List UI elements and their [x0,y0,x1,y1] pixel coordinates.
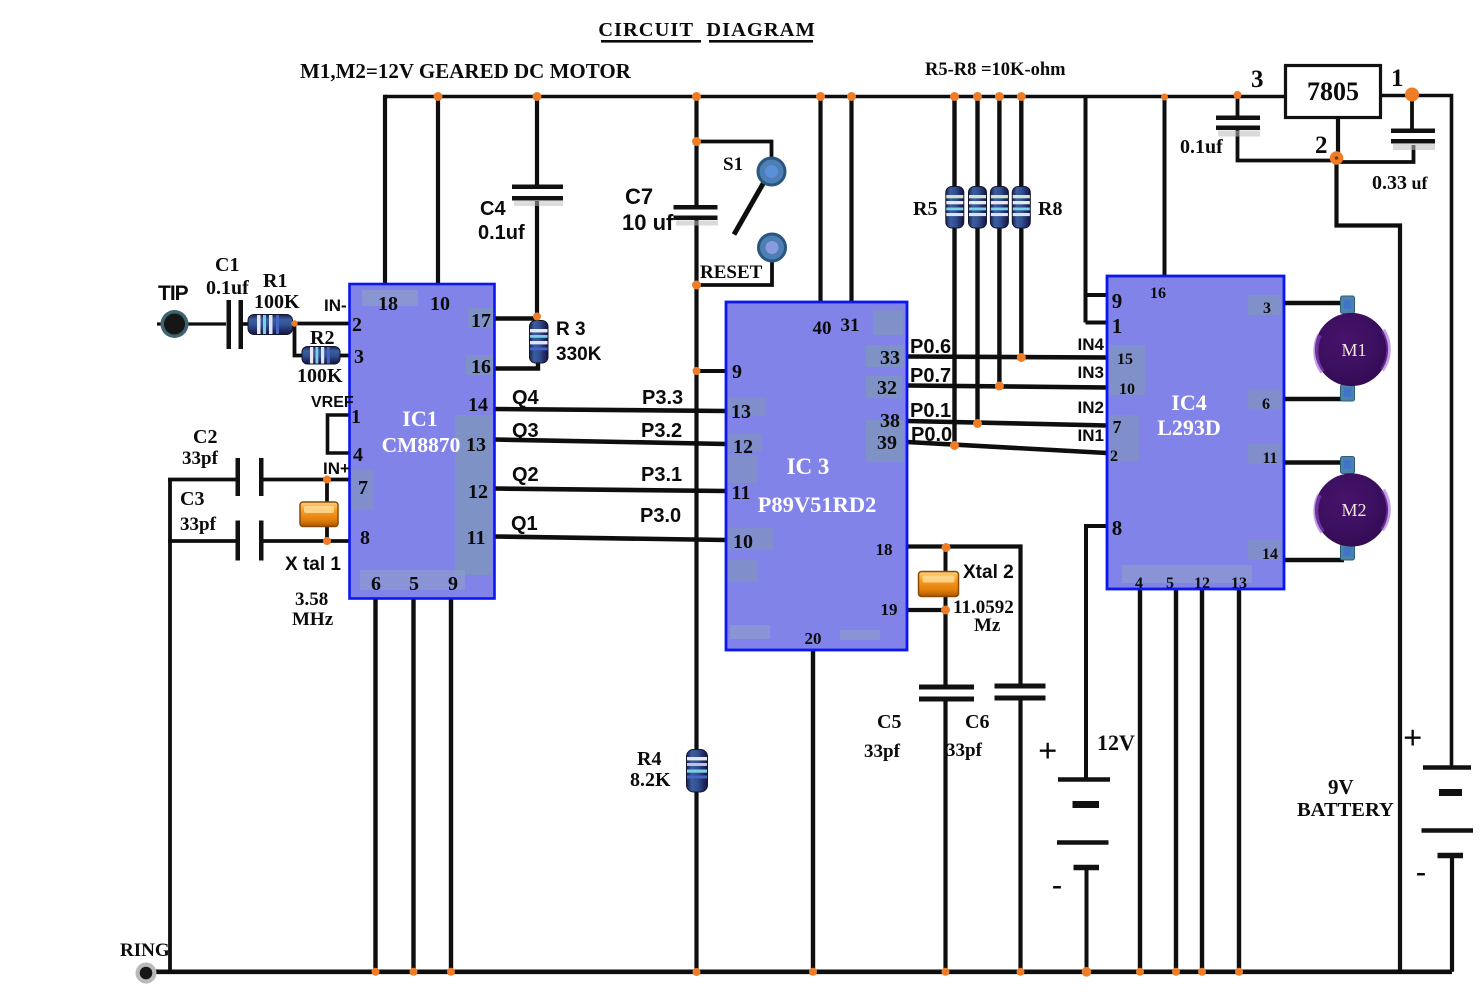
wire: crystal 1 link [325,480,329,542]
svg-text:7: 7 [1113,417,1122,437]
wire: R7 drop [997,97,1001,387]
svg-text:12: 12 [1194,575,1210,592]
svg-text:RING: RING [120,940,170,961]
svg-text:X tal 1: X tal 1 [285,554,341,575]
switch S1 top contact [758,158,785,185]
svg-text:P3.3: P3.3 [642,387,683,409]
svg-text:16: 16 [471,356,491,378]
svg-text:Q2: Q2 [512,464,539,486]
svg-text:C3: C3 [180,488,204,510]
svg-text:VREF: VREF [311,394,354,411]
svg-text:0.1uf: 0.1uf [478,222,525,244]
svg-text:32: 32 [877,377,897,399]
capacitor C1 [227,300,244,349]
svg-text:10: 10 [1119,381,1135,398]
svg-text:C4: C4 [480,198,506,220]
junction dots R5-R8 bottoms [950,353,1026,450]
wire: Q2 line IC1 pin12 to IC3 pin11 [494,489,726,492]
wire: R8 drop [1019,97,1023,358]
wire: IC3 pin18 to C6 [907,547,1021,687]
junction dots xtal2 [941,543,951,615]
svg-text:4: 4 [353,444,363,466]
svg-text:11: 11 [467,527,486,549]
IC3 P89V51RD2 body [726,302,907,650]
svg-text:9V: 9V [1328,775,1354,799]
capacitor C4 [512,185,563,207]
svg-text:Xtal 2: Xtal 2 [963,562,1014,583]
svg-text:MHz: MHz [292,609,334,630]
wire: C2 right lead to IC1 pin7 [261,478,350,482]
svg-text:R1: R1 [263,270,287,292]
motor M2 [1315,457,1389,561]
svg-text:Mz: Mz [974,615,1001,636]
wire: R5 drop [952,97,956,447]
wire: crystal 2 link [944,548,948,611]
svg-text:8: 8 [360,527,370,549]
svg-text:L293D: L293D [1157,415,1221,440]
svg-text:38: 38 [880,410,900,432]
svg-text:CM8870: CM8870 [382,433,461,457]
svg-text:P3.2: P3.2 [641,420,682,442]
wire: C1 to R1 [242,322,252,326]
svg-text:IN+: IN+ [323,459,350,478]
svg-text:8: 8 [1112,516,1123,540]
svg-text:IN-: IN- [324,296,347,315]
connector RING [136,963,157,984]
wire: R2 to IC1 pin3 [339,354,350,358]
wire: IC4 pin6 to M1 [1284,397,1344,401]
wire: IC4 pin3 to M1 [1284,301,1344,305]
wire: IC4 pin13 to ground [1237,589,1241,972]
svg-text:10: 10 [733,531,753,553]
svg-text:9: 9 [1112,289,1123,313]
capacitor C5 [919,685,974,702]
wire: IC1 pin 18 drop [383,95,387,284]
wire: C7 bottom down to R4 and ground [694,218,698,972]
svg-text:Q4: Q4 [512,387,540,409]
wire: 12V battery minus to ground [1085,868,1089,972]
svg-text:TIP: TIP [158,282,189,305]
wire: IC3 pin 31 drop [849,97,853,303]
wire: IC3 pin 40 drop [818,97,822,303]
svg-text:13: 13 [1231,575,1247,592]
svg-text:19: 19 [881,600,898,619]
svg-text:Q1: Q1 [511,513,538,535]
junction dots xtal1 [323,476,331,546]
svg-text:39: 39 [877,432,897,454]
svg-text:3: 3 [1251,66,1264,93]
junction dots S1 loop [692,137,701,290]
battery 9V [1422,768,1474,856]
svg-text:10: 10 [430,293,450,315]
wire: IC4 pin14 to M2 [1284,558,1344,562]
capacitor C2 [236,458,264,496]
wire: IC1 pin 10 drop [436,97,440,285]
svg-text:M1: M1 [1341,340,1366,360]
svg-text:9: 9 [448,573,458,595]
svg-text:11: 11 [1262,450,1277,467]
wire: 0.33uf cap stubs [1337,95,1414,162]
svg-text:R8: R8 [1038,198,1062,220]
junction dots ground rail [372,967,1244,977]
svg-text:R4: R4 [637,748,661,770]
svg-text:IC1: IC1 [402,406,437,431]
resistor R7 10K vertical [990,187,1008,229]
svg-text:IN2: IN2 [1078,398,1104,417]
switch S1 bottom contact [759,234,786,261]
wire: P0.7 line to IN3 [907,386,1107,388]
wire: P0.0 line to IN1 [907,442,1107,453]
wire: ground bottom rail [153,969,1452,974]
wire: IC4 pin4 to ground [1138,589,1142,972]
wire: C5 bottom to ground [943,699,947,972]
resistor R2 100K horizontal [302,347,340,365]
wire: top +V rail left of 7805 [385,95,1285,99]
svg-text:2: 2 [352,314,362,336]
svg-text:R 3: R 3 [556,319,586,340]
wire: S1 reset switch loop bottom [697,261,773,286]
svg-text:IC 3: IC 3 [787,454,830,479]
svg-text:IC4: IC4 [1171,390,1206,415]
wire: IC1 pin6 to ground [373,598,377,972]
wire: C3 right lead to IC1 pin8 [261,539,350,543]
svg-text:C5: C5 [877,711,901,733]
svg-text:IN4: IN4 [1078,335,1105,354]
resistor R8 10K vertical [1012,187,1030,229]
svg-text:P0.0: P0.0 [911,424,952,446]
svg-text:+: + [1403,720,1422,757]
svg-text:C6: C6 [965,711,989,733]
svg-text:5: 5 [409,573,419,595]
svg-text:C1: C1 [215,254,239,276]
svg-text:12V: 12V [1097,730,1135,755]
resistor R4 8.2K vertical [687,750,708,793]
svg-text:C2: C2 [193,426,217,448]
svg-text:33: 33 [880,347,900,369]
svg-text:4: 4 [1135,575,1143,592]
wire: IC4 pin11 to M2 [1284,460,1344,464]
wire: C3 left lead [168,539,237,543]
svg-text:0.1uf: 0.1uf [1180,136,1223,158]
svg-text:BATTERY: BATTERY [1297,799,1394,821]
wire: 0.1uf cap stubs at 7805 input [1238,95,1337,161]
motor M1 [1315,296,1389,401]
svg-text:M1,M2=12V GEARED DC MOTOR: M1,M2=12V GEARED DC MOTOR [300,59,632,83]
wire: VREF bracket pins 1-4 [328,415,351,453]
svg-text:1: 1 [1112,314,1123,338]
wire: Q3 line IC1 pin13 to IC3 pin12 [494,440,726,445]
wire: 7805 pin2 drop [1336,118,1340,159]
svg-text:P0.7: P0.7 [910,365,951,387]
wire: IC4 pin5 to ground [1174,589,1178,972]
svg-text:P89V51RD2: P89V51RD2 [758,492,877,517]
svg-text:2: 2 [1315,132,1328,159]
svg-text:R5: R5 [913,198,937,220]
wire: IC4 pin16 drop [1163,97,1167,277]
wire: S1 reset switch loop top [697,142,772,159]
svg-text:IN3: IN3 [1078,363,1104,382]
svg-text:3: 3 [1263,300,1271,317]
wire: top rail right of 7805 to battery corner [1381,96,1452,768]
resistor R5 10K vertical [946,187,964,229]
svg-text:+: + [1038,733,1057,770]
wire: C2 left lead [168,478,237,482]
svg-text:100K: 100K [254,291,300,313]
svg-text:P3.1: P3.1 [641,464,682,486]
wire: P0.1 line to IN2 [907,421,1107,426]
resistor R1 100K horizontal [248,315,293,335]
svg-text:5: 5 [1166,575,1174,592]
svg-text:31: 31 [841,315,860,336]
IC4 L293D body [1107,276,1284,589]
wire: P0.6 line to IN4 [907,357,1107,358]
capacitor C7 [674,205,719,226]
capacitor C3 [236,521,264,561]
title [598,19,816,43]
capacitor 0.1uf at 7805 [1216,116,1260,137]
svg-text:P0.1: P0.1 [910,400,951,422]
crystal Xtal1 3.58MHz [300,502,338,527]
svg-text:12: 12 [468,481,488,503]
svg-text:20: 20 [805,629,822,648]
wire: C7 top drop [694,97,698,208]
wire: C4 bottom to pin17/R3 node [535,201,539,317]
svg-text:18: 18 [876,540,893,559]
wire: C4 top drop [535,97,539,187]
wire: IC3 pin9 reset stub [697,369,727,373]
svg-text:14: 14 [468,394,488,416]
wire: C6 bottom to ground [1018,699,1022,972]
junction dot 7805 gnd node 2 [1330,151,1344,165]
svg-text:2: 2 [1110,448,1118,465]
svg-text:16: 16 [1150,285,1166,302]
wire: junction down to R2 [295,324,304,356]
svg-text:-: - [1416,855,1426,888]
wire: IC4 pin8 to 12V battery [1086,526,1107,779]
wire: 9V battery minus to ground rail [1450,856,1454,972]
svg-text:10 uf: 10 uf [622,210,674,235]
connector TIP [161,310,189,338]
svg-text:7805: 7805 [1307,77,1359,106]
wire: IC1 pin 17 stub [494,316,537,320]
svg-text:R2: R2 [310,327,334,349]
capacitor C6 [995,684,1046,701]
svg-text:3.58: 3.58 [295,589,328,610]
wire: ground from node2 down right side [1337,158,1401,972]
svg-text:330K: 330K [556,344,602,365]
svg-text:6: 6 [1262,396,1270,413]
svg-text:-: - [1052,868,1062,901]
battery 12V [1057,780,1110,868]
svg-text:0.33 uf: 0.33 uf [1372,172,1429,194]
junction dot R1/R2 [291,320,297,326]
wire: left vertical from C2/C3 to ground [168,479,172,972]
svg-text:CIRCUIT DIAGRAM: CIRCUIT DIAGRAM [598,19,816,41]
svg-text:18: 18 [378,293,398,315]
resistor R3 330K vertical [530,321,549,364]
svg-text:Q3: Q3 [512,420,539,442]
svg-text:1: 1 [1391,65,1404,92]
svg-text:S1: S1 [723,154,743,175]
svg-text:9: 9 [732,361,742,383]
svg-text:R5-R8 =10K-ohm: R5-R8 =10K-ohm [925,60,1066,80]
svg-text:40: 40 [813,318,832,339]
svg-text:11: 11 [732,482,751,504]
resistor R6 10K vertical [969,187,987,229]
svg-text:6: 6 [371,573,381,595]
svg-text:33pf: 33pf [180,514,217,535]
svg-text:C7: C7 [625,184,653,209]
junction dot pin17/C4/R3 [533,313,541,321]
wire: IC1 pin9 to ground [449,598,453,972]
wire: R6 drop [975,97,979,424]
wire: IC1 pin 16 stub to R3 bottom [494,362,538,369]
junction dots top rail [434,91,1242,101]
wire: IC4 pin9/pin1 bracket [1086,97,1108,323]
svg-text:0.1uf: 0.1uf [206,277,249,299]
wire: Q1 line IC1 pin11 to IC3 pin10 [494,537,726,541]
wire: R1 to IC1 pin2 [290,322,350,326]
wire: Q4 line IC1 pin14 to IC3 pin13 [494,409,726,411]
wire: IC1 pin5 to ground [411,598,415,972]
svg-text:P3.0: P3.0 [640,505,681,527]
svg-text:33pf: 33pf [946,740,983,761]
svg-text:7: 7 [358,477,368,499]
svg-text:33pf: 33pf [864,741,901,762]
crystal Xtal2 11.0592MHz [919,572,959,597]
svg-text:15: 15 [1117,351,1133,368]
wire: S1 lever [734,175,768,235]
svg-text:13: 13 [731,401,751,423]
wire: IC3 pin20 to ground [811,650,815,972]
svg-text:8.2K: 8.2K [630,769,671,791]
svg-text:3: 3 [354,346,364,368]
wire: IC3 pin19 to C5 [907,610,946,687]
regulator 7805 [1286,66,1381,118]
svg-text:17: 17 [471,310,491,332]
IC1 CM8870 body [350,284,495,599]
svg-text:100K: 100K [297,365,343,387]
svg-text:33pf: 33pf [182,448,219,469]
svg-text:M2: M2 [1341,500,1366,520]
svg-text:RESET: RESET [700,262,763,283]
svg-text:13: 13 [466,434,486,456]
capacitor 0.33uf at 7805 [1391,129,1435,151]
wire: TIP to C1 [157,322,226,325]
svg-text:P0.6: P0.6 [910,336,951,358]
svg-text:IN1: IN1 [1078,426,1104,445]
svg-text:12: 12 [733,436,753,458]
junction dot reset node [693,367,701,375]
junction dot 7805 output node 1 [1405,88,1419,102]
svg-text:14: 14 [1262,546,1278,563]
wire: IC4 pin12 to ground [1200,589,1204,972]
